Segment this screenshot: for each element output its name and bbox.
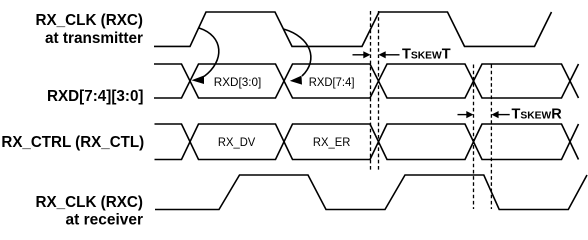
- dashed guide line data transition (TskewR): [473, 65, 475, 210]
- bus waveform RX_CTRL (RX_CTL) lower trace: [155, 124, 579, 160]
- svg-text:RXD[7:4]: RXD[7:4]: [309, 75, 355, 89]
- arc arrow clock edge to RXD[3:0]: [192, 28, 219, 84]
- waveform RX_CLK (RXC) at receiver: [155, 175, 587, 210]
- svg-text:TSKEWR: TSKEWR: [512, 107, 563, 123]
- svg-text:RXD[7:4][3:0]: RXD[7:4][3:0]: [47, 88, 144, 105]
- svg-text:TSKEWT: TSKEWT: [402, 47, 451, 63]
- bus waveform RX_CTRL (RX_CTL) upper trace: [155, 124, 579, 160]
- dashed guide line data transition (TskewT): [378, 11, 380, 172]
- svg-text:RX_CLK (RXC): RX_CLK (RXC): [36, 12, 144, 29]
- dashed guide line RX clock edge: [490, 65, 492, 210]
- svg-text:RX_ER: RX_ER: [313, 135, 351, 149]
- svg-text:at transmitter: at transmitter: [45, 30, 143, 47]
- svg-text:at receiver: at receiver: [66, 212, 144, 229]
- dashed guide line TX clock edge: [370, 11, 372, 172]
- arrow TskewT right (points left): [379, 51, 400, 58]
- arrow TskewT left (points right): [353, 51, 371, 58]
- svg-text:RXD[3:0]: RXD[3:0]: [214, 75, 262, 89]
- bus waveform RXD[7:4][3:0] upper trace: [154, 64, 579, 98]
- arrow TskewR left (points right): [458, 111, 474, 118]
- svg-text:RX_DV: RX_DV: [218, 135, 255, 149]
- arc arrow clock edge to RXD[7:4]: [284, 29, 311, 85]
- bus waveform RXD[7:4][3:0] lower trace: [154, 64, 579, 98]
- arrow TskewR right (points left): [491, 111, 509, 118]
- svg-text:RX_CTRL (RX_CTL): RX_CTRL (RX_CTL): [1, 134, 144, 151]
- waveform RX_CLK (RXC) at transmitter: [154, 12, 552, 46]
- svg-text:RX_CLK (RXC): RX_CLK (RXC): [36, 194, 144, 211]
